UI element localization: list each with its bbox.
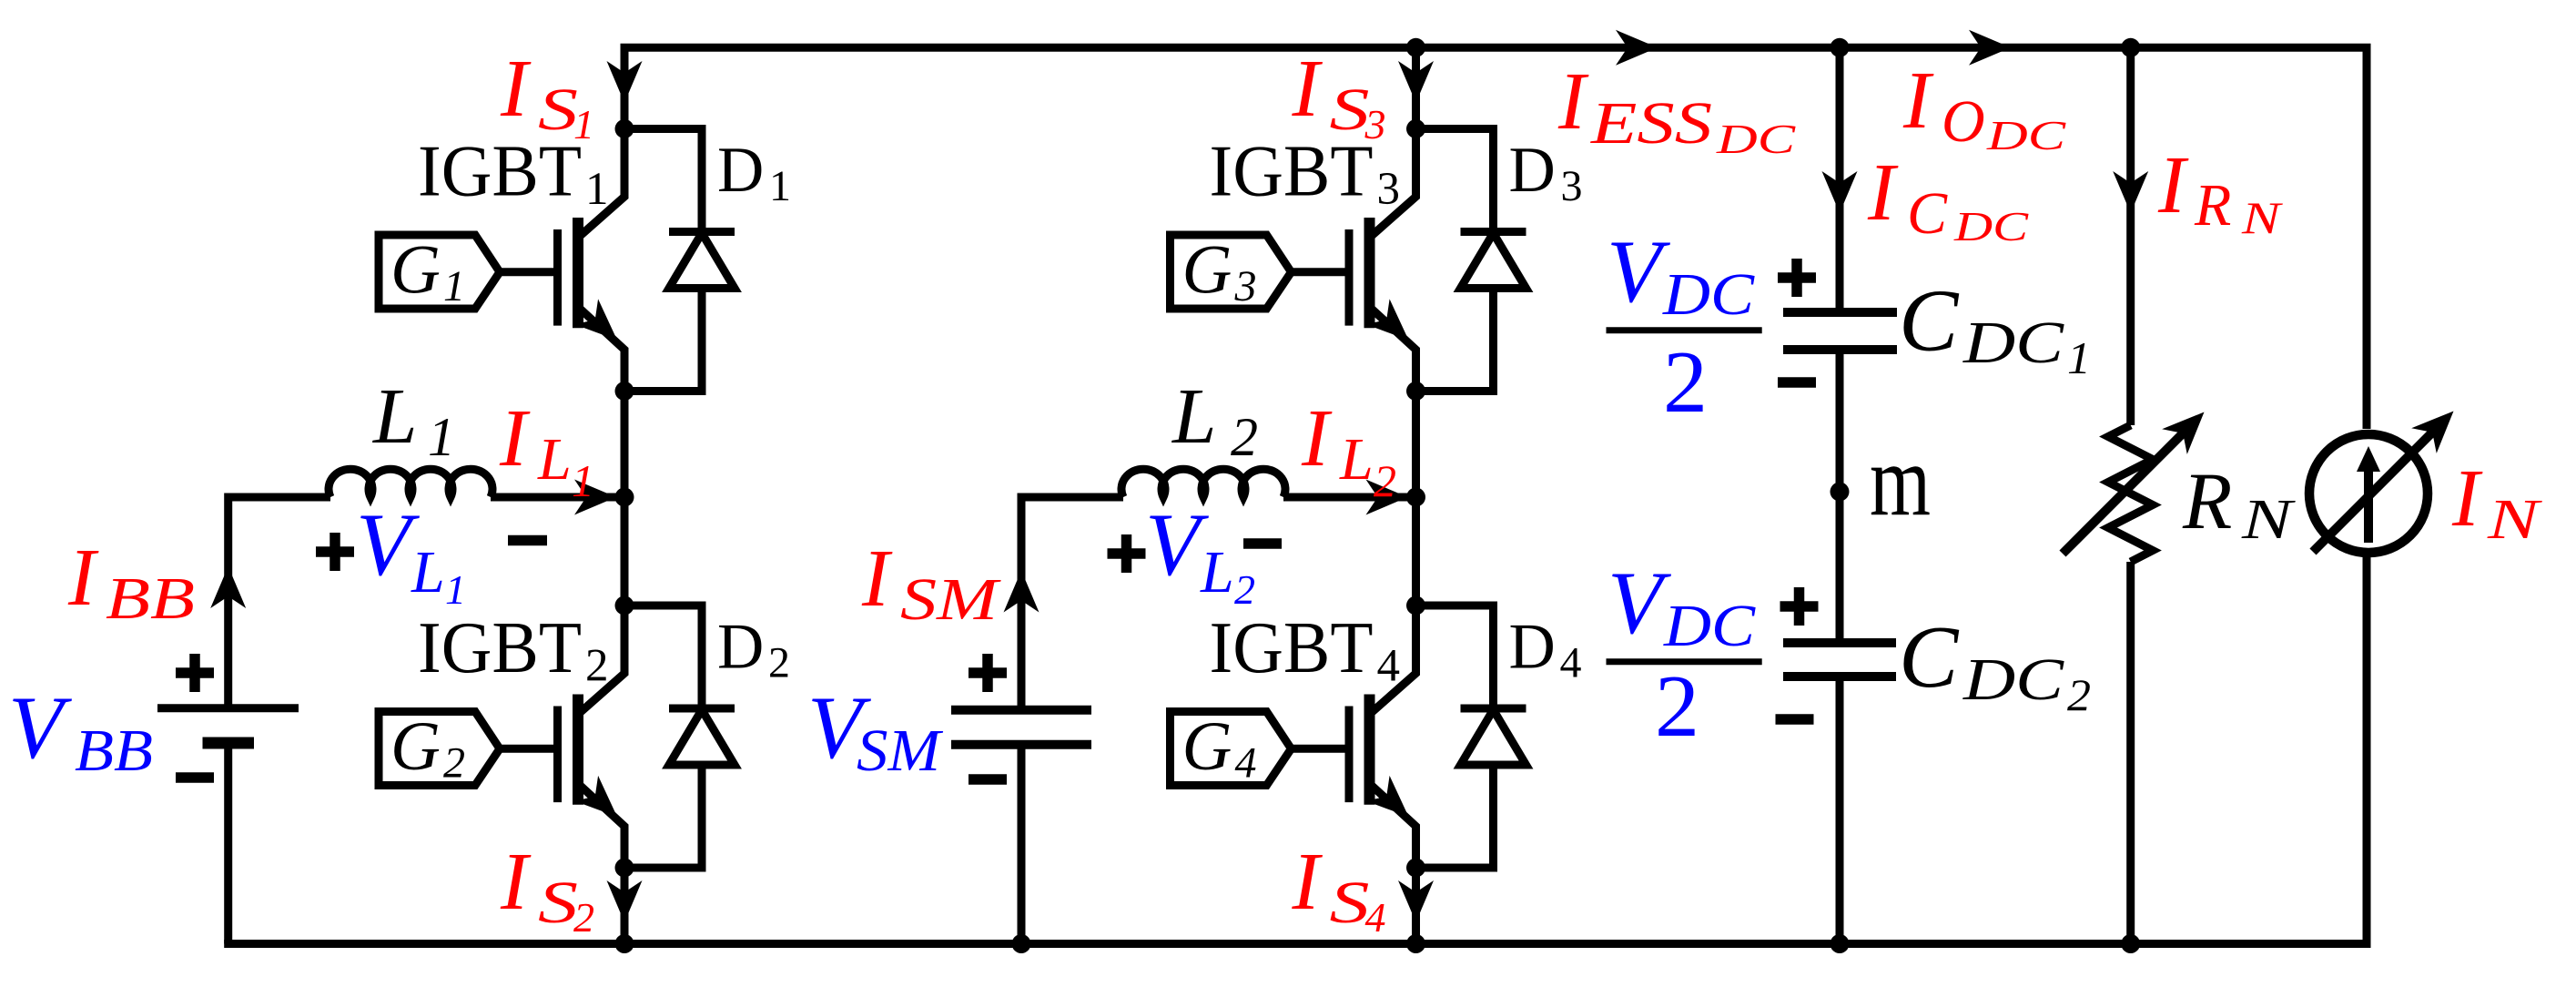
arrow I_R_N	[2113, 171, 2148, 213]
IGBT4 emitter arrow	[1366, 776, 1421, 829]
svg-text:2: 2	[443, 739, 465, 788]
svg-text:2: 2	[1231, 407, 1258, 467]
svg-text:D: D	[1509, 612, 1556, 683]
svg-text:N: N	[2241, 192, 2284, 243]
fraction bar lower	[1607, 658, 1762, 665]
node at R_N top rail	[2121, 38, 2140, 57]
svg-text:2: 2	[2067, 669, 2091, 720]
svg-text:I: I	[1902, 56, 1934, 146]
svg-text:V: V	[8, 678, 72, 778]
svg-text:R: R	[2182, 457, 2232, 546]
svg-text:I: I	[2451, 453, 2483, 544]
svg-text:D: D	[1509, 135, 1556, 206]
svg-text:1: 1	[585, 164, 609, 215]
svg-text:V: V	[356, 495, 420, 595]
node at leg1 IGBT2 collector	[615, 596, 634, 616]
capacitor C_DC2 plates	[1783, 643, 1896, 677]
node at leg1 top (I_S1)	[615, 119, 634, 138]
node at leg2 midpoint	[1406, 488, 1425, 507]
arrow I_S2	[607, 880, 643, 922]
svg-text:I: I	[499, 393, 531, 483]
svg-text:2: 2	[1374, 455, 1396, 506]
battery V_BB plate long	[157, 704, 299, 712]
svg-text:I: I	[1557, 56, 1589, 147]
wire battery branch lower	[224, 743, 232, 944]
svg-text:L: L	[371, 371, 417, 460]
svg-text:N: N	[2241, 489, 2297, 551]
arrow I_BB	[210, 566, 246, 608]
label plus C_DC1	[1778, 259, 1816, 297]
svg-text:1: 1	[572, 455, 594, 506]
node at leg2 I_S3	[1406, 119, 1425, 138]
arrow I_ESS_DC	[1616, 30, 1658, 66]
svg-text:V: V	[1607, 222, 1670, 321]
wire leg1 bottom segment	[578, 784, 624, 944]
arrow I_S4	[1398, 880, 1434, 922]
capacitor C_DC1 plates	[1783, 312, 1897, 350]
wire L2 to leg2 midpoint	[1283, 493, 1408, 502]
svg-text:V: V	[1607, 554, 1671, 653]
node at leg1 bottom rail	[615, 934, 634, 953]
svg-text:I: I	[1292, 837, 1323, 927]
label minus C_DC1	[1778, 377, 1816, 388]
svg-text:G: G	[1182, 708, 1232, 785]
resistor R_N zigzag	[2108, 425, 2153, 562]
svg-text:G: G	[390, 708, 441, 785]
label plus V_L2	[1108, 534, 1146, 573]
svg-text:4: 4	[1365, 894, 1386, 941]
IGBT2 emitter arrow	[574, 776, 629, 829]
svg-text:BB: BB	[75, 717, 153, 784]
svg-text:1: 1	[443, 262, 465, 310]
svg-text:DC: DC	[1663, 593, 1756, 659]
diode D3 symbol	[1461, 232, 1526, 289]
svg-text:I: I	[500, 837, 532, 927]
wire diode D2 branch lower	[624, 765, 702, 868]
label minus V_L1	[508, 535, 547, 546]
svg-text:L: L	[1171, 371, 1216, 460]
label plus V_SM	[969, 654, 1007, 692]
wire battery branch upper (corner to inductor)	[228, 497, 330, 705]
svg-text:I: I	[500, 44, 532, 134]
svg-text:V: V	[1145, 495, 1209, 595]
arrow I_S3	[1398, 61, 1434, 103]
IGBT3 emitter arrow	[1366, 299, 1421, 352]
node at leg2 IGBT4 emitter	[1406, 859, 1425, 878]
IGBT2 symbol	[379, 695, 578, 805]
wire L1 to leg1 midpoint	[491, 493, 617, 502]
arrow I_SM	[1004, 571, 1040, 613]
wire diode D1 branch upper	[624, 129, 702, 232]
svg-text:I: I	[67, 533, 99, 623]
svg-text:1: 1	[769, 162, 791, 210]
svg-text:G: G	[1182, 232, 1232, 309]
diode D2 symbol	[669, 708, 735, 765]
wire diode D2 branch upper	[624, 605, 702, 708]
svg-text:L: L	[1339, 426, 1374, 493]
wire leg1 collector segment	[578, 44, 624, 238]
inductor L2	[1121, 469, 1285, 497]
svg-text:S: S	[1330, 870, 1370, 936]
node at leg1 midpoint	[615, 488, 634, 507]
svg-text:I: I	[1292, 44, 1323, 134]
svg-text:C: C	[1899, 272, 1960, 371]
label minus V_L2	[1243, 538, 1282, 549]
diode D1 symbol	[669, 232, 735, 289]
svg-text:DC: DC	[1962, 646, 2064, 713]
label plus V_L1	[316, 533, 354, 571]
wire DC-link middle	[1836, 350, 1844, 643]
svg-text:1: 1	[445, 566, 466, 613]
svg-text:3: 3	[1234, 262, 1257, 310]
IGBT4 symbol	[1171, 695, 1370, 805]
svg-text:1: 1	[428, 407, 455, 467]
svg-text:DC: DC	[1662, 261, 1755, 328]
wire DC-link lower	[1836, 677, 1844, 944]
wire diode D3 branch upper	[1416, 129, 1494, 232]
svg-text:N: N	[2487, 489, 2543, 551]
svg-text:2: 2	[768, 639, 790, 687]
arrow I_L1	[574, 480, 616, 515]
IGBT1 symbol	[379, 218, 578, 328]
node at leg1 IGBT2 emitter	[615, 859, 634, 878]
node at DC-link bottom rail	[1831, 934, 1850, 953]
svg-text:I: I	[1301, 393, 1333, 483]
svg-text:I: I	[1867, 148, 1899, 238]
arrow I_C_DC	[1822, 171, 1858, 213]
svg-text:L: L	[537, 426, 572, 493]
svg-text:2: 2	[1234, 566, 1255, 613]
current source I_N inner arrow	[2364, 466, 2373, 543]
wire top rail and right edge upper	[621, 47, 2368, 429]
svg-text:D: D	[717, 612, 764, 683]
capacitor V_SM plates	[951, 710, 1091, 745]
wire right edge lower and bottom rail	[224, 557, 2367, 944]
svg-text:2: 2	[1663, 333, 1708, 432]
current source I_N diagonal arrow	[2313, 423, 2441, 552]
svg-text:O: O	[1942, 88, 1985, 155]
wire leg2 bottom segment	[1370, 784, 1416, 944]
arrow I_S1	[607, 61, 643, 103]
node at R_N bottom rail	[2121, 934, 2140, 953]
wire DC-link upper	[1836, 44, 1844, 312]
svg-text:3: 3	[1561, 162, 1583, 210]
node at DC-link top rail	[1831, 38, 1850, 57]
svg-text:SM: SM	[900, 566, 1002, 633]
inductor L1	[329, 469, 492, 497]
label minus V_SM	[969, 774, 1007, 785]
node at leg2 IGBT4 collector	[1406, 596, 1425, 616]
wire leg1 emitter to IGBT2 collector	[578, 307, 624, 715]
svg-text:1: 1	[2067, 332, 2091, 383]
IGBT3 symbol	[1171, 218, 1370, 328]
svg-text:m: m	[1870, 424, 1931, 537]
current source I_N circle	[2309, 434, 2428, 553]
resistor R_N diagonal arrow	[2063, 424, 2192, 554]
label minus battery	[176, 772, 214, 783]
svg-text:ESS: ESS	[1590, 90, 1712, 157]
svg-text:S: S	[538, 870, 578, 936]
svg-text:L: L	[1200, 539, 1234, 605]
svg-text:IGBT: IGBT	[418, 130, 582, 212]
svg-text:C: C	[1907, 180, 1948, 247]
arrow I_L2	[1366, 480, 1408, 515]
wire diode D3 branch lower	[1416, 289, 1494, 392]
svg-text:DC: DC	[1962, 310, 2064, 376]
fraction bar upper	[1607, 327, 1762, 333]
svg-text:IGBT: IGBT	[418, 606, 582, 688]
wire diode D1 branch lower	[624, 289, 702, 392]
node at leg1 IGBT1 emitter	[615, 382, 634, 401]
svg-text:2: 2	[573, 894, 594, 941]
svg-text:SM: SM	[857, 717, 944, 784]
svg-text:G: G	[390, 232, 441, 309]
svg-text:BB: BB	[106, 565, 195, 632]
label plus C_DC2	[1780, 587, 1819, 626]
svg-text:L: L	[411, 539, 445, 605]
node m	[1831, 483, 1850, 502]
svg-text:D: D	[717, 135, 764, 206]
node at leg2 top rail	[1406, 38, 1425, 57]
wire R_N branch upper	[2126, 44, 2135, 425]
diode D4 symbol	[1461, 708, 1526, 765]
svg-text:2: 2	[1655, 657, 1699, 756]
svg-text:2: 2	[585, 641, 609, 692]
svg-text:IGBT: IGBT	[1210, 130, 1374, 212]
svg-text:C: C	[1899, 608, 1960, 707]
wire R_N branch lower	[2126, 562, 2135, 944]
node at leg2 bottom rail	[1406, 934, 1425, 953]
wire diode D4 branch lower	[1416, 765, 1494, 868]
node at V_SM bottom rail	[1012, 934, 1031, 953]
wire diode D4 branch upper	[1416, 605, 1494, 708]
svg-text:4: 4	[1560, 639, 1582, 687]
node at leg2 IGBT3 emitter	[1406, 382, 1425, 401]
battery V_BB plate short	[203, 738, 255, 749]
wire leg2 emitter to IGBT4 collector	[1370, 307, 1416, 715]
wire V_SM branch upper (corner to inductor L2)	[1021, 497, 1123, 707]
svg-text:4: 4	[1235, 739, 1257, 788]
svg-text:R: R	[2194, 172, 2231, 239]
svg-text:4: 4	[1377, 641, 1401, 692]
svg-text:DC: DC	[1716, 116, 1797, 162]
svg-text:DC: DC	[1986, 112, 2067, 158]
svg-text:DC: DC	[1953, 203, 2030, 249]
svg-text:3: 3	[1377, 164, 1401, 215]
label plus battery	[176, 654, 214, 692]
label minus C_DC2	[1776, 714, 1814, 725]
svg-text:I: I	[2157, 140, 2189, 230]
IGBT1 emitter arrow	[574, 299, 629, 352]
arrow I_O_DC	[1969, 30, 2011, 66]
wire leg2 collector segment	[1370, 44, 1416, 238]
svg-text:I: I	[861, 534, 893, 624]
wire V_SM branch lower	[1018, 745, 1026, 944]
svg-text:IGBT: IGBT	[1210, 606, 1374, 688]
